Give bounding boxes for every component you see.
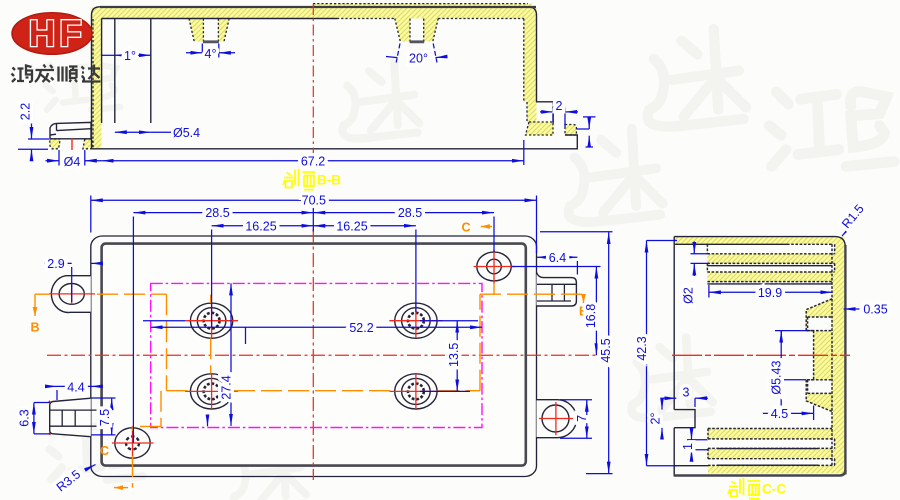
dim 4.5 xyxy=(763,412,814,414)
C arrows xyxy=(481,226,492,228)
screw bosses (4x) xyxy=(190,303,437,409)
boss row construction line xyxy=(143,320,185,322)
dim dia5.4 leader xyxy=(115,131,151,133)
middle boss block xyxy=(806,299,832,412)
B arrows xyxy=(34,294,36,309)
svg-text:16.25: 16.25 xyxy=(336,219,367,233)
spine xyxy=(832,241,845,466)
svg-text:2.2: 2.2 xyxy=(19,103,33,120)
dim 2deg xyxy=(661,398,663,410)
left ear hole xyxy=(59,284,84,305)
bottom-left ear clip xyxy=(50,398,91,437)
dim 16.25 right xyxy=(313,225,416,227)
dim 52.2 xyxy=(151,326,482,328)
body inner wall (thick) xyxy=(102,244,526,466)
wall yellow: left wall xyxy=(92,8,102,149)
dim 45.5 xyxy=(608,232,610,474)
dim 4.4 xyxy=(46,385,57,387)
red crosshairs: ear + corner holes + bump xyxy=(49,283,95,304)
svg-text:28.5: 28.5 xyxy=(398,206,422,220)
right foot pad 1 xyxy=(526,122,554,135)
dim 19.9 xyxy=(709,291,832,293)
svg-text:Ø5.43: Ø5.43 xyxy=(770,361,784,395)
svg-text:28.5: 28.5 xyxy=(205,206,229,220)
red centerline C-C xyxy=(672,354,850,356)
right ear tab xyxy=(537,273,577,307)
svg-text:H: H xyxy=(29,13,56,54)
svg-text:F: F xyxy=(59,13,82,54)
dim 1 xyxy=(687,440,708,450)
dim 7.5 xyxy=(111,398,113,435)
bottom-right bump xyxy=(537,400,577,438)
small step dim (right) xyxy=(583,116,596,118)
dim 7 xyxy=(560,400,592,439)
right edge thick xyxy=(844,245,846,475)
da xyxy=(82,65,101,82)
left ear tab xyxy=(51,276,90,313)
svg-text:C: C xyxy=(461,221,470,235)
top-right corner hole xyxy=(477,252,511,281)
dim 13.5 xyxy=(456,321,458,392)
red corner dots bottom-left ear xyxy=(49,401,51,435)
red vertical centerline xyxy=(312,229,314,480)
svg-text:Ø5.4: Ø5.4 xyxy=(173,126,200,140)
svg-text:Ø4: Ø4 xyxy=(64,155,81,169)
bottom fin block xyxy=(708,429,844,474)
dim 67.2 line (shared with dia4 right arrow) xyxy=(85,160,102,162)
svg-text:4.4: 4.4 xyxy=(67,380,84,394)
dim 20deg xyxy=(396,44,437,63)
dim 3 xyxy=(663,397,676,399)
svg-text:B-B: B-B xyxy=(317,173,341,188)
dim 4deg xyxy=(202,44,219,58)
dim dia2 xyxy=(691,254,710,264)
svg-text:C: C xyxy=(100,444,109,458)
top fin full width xyxy=(675,237,845,246)
company name (hand-drawn CJK strokes) xyxy=(12,65,101,83)
dim dia4 xyxy=(59,150,85,166)
dim 2 (right feet gap) xyxy=(553,108,565,128)
dim 2.9 xyxy=(44,262,72,264)
svg-text:67.2: 67.2 xyxy=(301,155,325,169)
yellow fills xyxy=(675,237,845,474)
boss 4deg right cheek xyxy=(218,19,229,42)
top edge thick xyxy=(100,6,536,8)
svg-text:2.9: 2.9 xyxy=(47,257,64,271)
dim 42.3 xyxy=(646,241,648,466)
svg-text:16.8: 16.8 xyxy=(584,304,598,328)
R3.5 leader xyxy=(85,465,96,471)
dim 6.3 xyxy=(33,403,35,434)
svg-text:20°: 20° xyxy=(409,52,428,66)
svg-text:52.2: 52.2 xyxy=(349,321,373,335)
fa xyxy=(35,65,54,83)
shun xyxy=(59,67,78,83)
bottom-left corner hole xyxy=(115,428,150,458)
0.35 leader xyxy=(844,308,860,310)
magenta hidden cavity rect xyxy=(151,283,482,427)
white slots in fin blocks xyxy=(707,244,834,465)
red centerline of B-B xyxy=(312,4,314,156)
svg-text:6.3: 6.3 xyxy=(18,409,32,426)
svg-text:6.4: 6.4 xyxy=(549,251,566,265)
dotted section edges on yellow xyxy=(93,4,528,148)
svg-text:0.35: 0.35 xyxy=(863,303,887,317)
svg-text:70.5: 70.5 xyxy=(302,193,326,207)
boss 20deg right cheek xyxy=(424,19,439,42)
dim 28.5 left xyxy=(133,212,313,214)
svg-text:13.5: 13.5 xyxy=(447,343,461,367)
dim 6.4 xyxy=(537,256,578,258)
dim dia5.43 xyxy=(780,331,782,414)
stray tick xyxy=(245,327,247,344)
svg-text:1°: 1° xyxy=(124,49,136,63)
svg-text:C-C: C-C xyxy=(762,482,786,497)
red centerline foot hole xyxy=(71,138,73,150)
svg-text:B: B xyxy=(30,321,39,335)
label "pou-mian B-B" (yellow) xyxy=(283,169,316,190)
red main horizontal centerline xyxy=(47,354,612,356)
boss 20deg left cheek xyxy=(395,19,410,42)
svg-text:3: 3 xyxy=(683,386,690,400)
dim 27.4 xyxy=(230,283,232,426)
svg-text:16.25: 16.25 xyxy=(245,219,276,233)
red ellipse xyxy=(12,13,92,55)
dim 16.8 xyxy=(595,267,597,356)
wall yellow: top lip right part xyxy=(313,4,532,9)
bump hole xyxy=(542,405,569,432)
left foot pad (left of hole) xyxy=(50,139,60,149)
left ear clip profile xyxy=(50,122,91,138)
hong xyxy=(12,66,33,83)
dotted edges of fins / boss xyxy=(707,244,834,465)
body outer outline xyxy=(91,236,537,477)
dim 70.5 xyxy=(91,199,537,201)
left foot pad (right of hole to wall) xyxy=(83,139,92,149)
boss 4deg left cheek xyxy=(189,19,203,42)
boss 1deg walls xyxy=(115,19,151,124)
outer profile outline xyxy=(50,7,577,149)
dim 2.2 xyxy=(18,139,49,149)
slot bottoms thick xyxy=(203,40,424,43)
dim 28.5 right xyxy=(313,212,494,214)
svg-text:Ø2: Ø2 xyxy=(682,287,696,304)
svg-text:2: 2 xyxy=(556,99,563,113)
HF monogram (white outlined strokes) xyxy=(29,13,82,54)
solid outline xyxy=(674,237,845,477)
svg-text:7: 7 xyxy=(575,415,589,422)
wall yellow: top band xyxy=(92,8,536,19)
svg-text:2°: 2° xyxy=(649,413,663,425)
orange section lines xyxy=(35,227,584,488)
label "pou-mian C-C" (yellow) xyxy=(728,478,761,499)
dim 16.25 left xyxy=(212,225,314,227)
top fin block xyxy=(707,244,832,281)
red crosshairs: bosses xyxy=(49,250,573,461)
svg-text:7.5: 7.5 xyxy=(98,409,112,426)
svg-text:45.5: 45.5 xyxy=(599,338,613,362)
wall yellow: right wall xyxy=(524,8,537,102)
svg-text:4°: 4° xyxy=(205,47,217,61)
dim 1deg xyxy=(115,54,151,56)
svg-text:42.3: 42.3 xyxy=(635,336,649,360)
svg-text:27.4: 27.4 xyxy=(219,375,233,399)
R1.5 leader xyxy=(842,226,851,236)
svg-text:4.5: 4.5 xyxy=(771,407,788,421)
right foot pad 2 xyxy=(565,125,576,136)
svg-text:19.9: 19.9 xyxy=(758,286,782,300)
svg-text:1: 1 xyxy=(681,443,695,450)
bottom edge thick xyxy=(674,470,845,476)
